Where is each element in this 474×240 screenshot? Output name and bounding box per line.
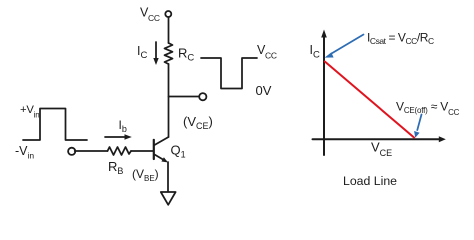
- svg-text:VCE(off) ≈ VCC: VCE(off) ≈ VCC: [396, 100, 460, 118]
- svg-text:RC: RC: [178, 46, 194, 64]
- wire: VCC terminal to RC top: [168, 17, 170, 43]
- wire: RB to base of Q1: [131, 150, 153, 152]
- current arrow IC: [153, 42, 158, 65]
- annotation arrow to ICsat point: [325, 35, 364, 58]
- svg-text:0V: 0V: [256, 83, 272, 98]
- svg-text:ICsat = VCC/RC: ICsat = VCC/RC: [367, 31, 434, 47]
- svg-text:Load Line: Load Line: [343, 174, 397, 188]
- svg-text:VCE: VCE: [371, 140, 392, 159]
- current arrow Ib: [105, 134, 132, 139]
- resistor RC: [165, 43, 173, 64]
- svg-text:RB: RB: [108, 159, 123, 176]
- wire: emitter to ground: [167, 162, 169, 192]
- load line: [325, 62, 414, 138]
- input waveform: [23, 109, 87, 141]
- terminal input: [68, 148, 75, 155]
- svg-text:(VCE): (VCE): [183, 114, 213, 131]
- resistor RB: [108, 147, 132, 155]
- svg-text:IC: IC: [137, 44, 147, 61]
- svg-text:IC: IC: [310, 43, 320, 61]
- wire: RC bottom to collector: [168, 64, 170, 137]
- ground: [161, 192, 176, 205]
- svg-text:Q1: Q1: [171, 143, 186, 160]
- svg-text:(VBE): (VBE): [132, 167, 159, 183]
- graph y-axis IC: [321, 30, 327, 156]
- wire: input terminal to RB: [75, 150, 108, 152]
- svg-text:VCC: VCC: [257, 43, 277, 61]
- annotation arrow to VCE(off) point: [414, 115, 421, 138]
- svg-text:-Vin: -Vin: [15, 144, 34, 161]
- terminal output VCE: [199, 93, 206, 100]
- svg-text:+Vin: +Vin: [20, 104, 40, 120]
- output waveform: [201, 58, 257, 89]
- terminal VCC: [165, 11, 171, 17]
- svg-text:VCC: VCC: [140, 6, 160, 24]
- transistor Q1: [154, 137, 169, 162]
- graph x-axis VCE: [313, 136, 446, 142]
- svg-text:Ib: Ib: [119, 118, 127, 134]
- wire: collector node to output terminal: [169, 96, 201, 98]
